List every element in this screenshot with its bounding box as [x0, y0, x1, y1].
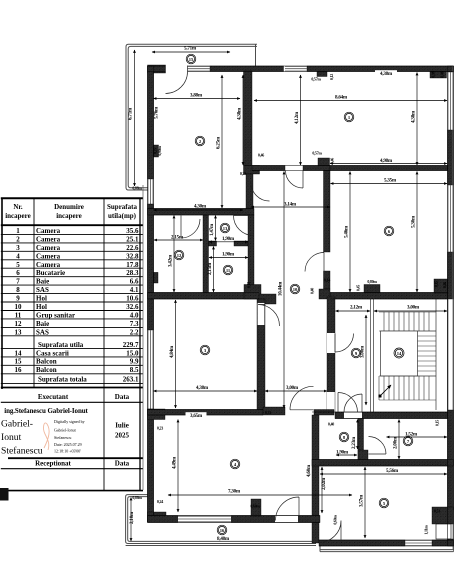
- svg-text:2,12m: 2,12m: [350, 306, 363, 311]
- door room9: [335, 334, 354, 353]
- niche bottom-right: [432, 507, 454, 524]
- dim 5.30m room6 right v: [416, 172, 418, 293]
- svg-text:2,23m: 2,23m: [352, 436, 357, 449]
- room5 bottom wall: [319, 540, 405, 546]
- svg-text:1,90m: 1,90m: [222, 253, 235, 258]
- svg-text:5,56m: 5,56m: [386, 469, 399, 474]
- svg-text:0,88m: 0,88m: [132, 186, 142, 191]
- wall V3 right of 13/11: [248, 215, 254, 294]
- svg-text:0,24: 0,24: [157, 499, 163, 504]
- digital signature name: [1, 419, 43, 457]
- svg-text:15.0: 15.0: [126, 349, 139, 357]
- svg-text:Balcon: Balcon: [36, 366, 57, 374]
- wall H3 between 13 and 11: [209, 241, 217, 246]
- svg-text:2,15m: 2,15m: [208, 262, 213, 275]
- svg-text:Gabriel-: Gabriel-: [1, 419, 33, 430]
- svg-text:6: 6: [16, 269, 20, 277]
- svg-text:1: 1: [16, 227, 20, 235]
- svg-text:0,57m: 0,57m: [312, 151, 322, 156]
- svg-text:25.1: 25.1: [126, 235, 139, 243]
- dim 2.15m room12: [154, 239, 203, 241]
- dim 4.12m v hall top: [300, 75, 302, 165]
- wall V6a room6 left: [324, 171, 331, 253]
- dim 6.25m room2 v: [221, 75, 223, 208]
- svg-text:9: 9: [16, 295, 20, 303]
- svg-text:2,10m: 2,10m: [130, 511, 135, 524]
- svg-text:0,23: 0,23: [157, 426, 163, 431]
- svg-text:0,46: 0,46: [440, 71, 445, 77]
- svg-text:0,40: 0,40: [310, 288, 315, 294]
- svg-text:Suprafata totala: Suprafata totala: [38, 376, 87, 384]
- stairs treads top flight: [379, 312, 436, 331]
- svg-text:5,35m: 5,35m: [384, 179, 397, 184]
- svg-text:0,15: 0,15: [435, 420, 440, 426]
- svg-text:Suprafata utila: Suprafata utila: [38, 341, 84, 349]
- dim 3.14m hall top: [251, 206, 330, 208]
- window left wall (room 3): [148, 330, 153, 409]
- door balcony16: [276, 497, 300, 521]
- door room4: [290, 386, 314, 410]
- wall H1 right part to right wall: [330, 166, 448, 171]
- svg-text:0,60m: 0,60m: [333, 514, 338, 524]
- svg-text:5,30m: 5,30m: [412, 215, 417, 228]
- svg-text:SAS: SAS: [36, 328, 49, 336]
- svg-text:4,60m: 4,60m: [307, 464, 312, 477]
- dim 3.00m room9 v: [365, 315, 367, 405]
- svg-text:3: 3: [16, 244, 20, 252]
- svg-text:0,46: 0,46: [330, 158, 335, 164]
- svg-text:8,48m: 8,48m: [217, 537, 230, 542]
- svg-text:incapere: incapere: [56, 212, 82, 220]
- wall V6b room8 right: [358, 419, 364, 464]
- svg-text:7.3: 7.3: [130, 320, 139, 328]
- svg-text:Casa scarii: Casa scarii: [36, 349, 69, 357]
- svg-text:263.1: 263.1: [123, 376, 139, 384]
- svg-text:4,38m: 4,38m: [196, 386, 209, 391]
- svg-text:32.6: 32.6: [126, 303, 139, 311]
- svg-text:Nr.: Nr.: [13, 203, 23, 211]
- svg-text:1,90m: 1,90m: [336, 451, 349, 456]
- dim 2.15m room11 v: [213, 247, 215, 293]
- svg-text:0,90m: 0,90m: [157, 145, 162, 155]
- wall H2 below room2: [148, 209, 255, 216]
- exterior left wall middle: [148, 204, 154, 330]
- dim 1.90m sas13: [209, 241, 248, 243]
- wall V5 room4 right: [312, 415, 319, 543]
- dim 3.42m room12 v: [173, 216, 175, 293]
- svg-text:Stefanescu: Stefanescu: [1, 446, 43, 457]
- dim 4.38m room3 bottom: [154, 390, 258, 392]
- svg-text:229.7: 229.7: [123, 341, 139, 349]
- svg-text:10: 10: [15, 303, 23, 311]
- svg-text:11: 11: [226, 268, 231, 273]
- exterior left wall lower + corner blocks: [148, 409, 154, 522]
- dim 1.90m room11: [209, 257, 248, 259]
- window left wall (room 2): [148, 179, 153, 204]
- svg-text:utila(mp): utila(mp): [108, 212, 137, 220]
- svg-text:2: 2: [16, 235, 20, 243]
- wall V2 left of rooms 13/11: [203, 215, 209, 294]
- door notch room3 top right: [258, 303, 265, 325]
- svg-text:32.8: 32.8: [126, 252, 139, 260]
- dim 2.00m room7 v: [398, 420, 400, 460]
- svg-text:3,65m: 3,65m: [190, 414, 203, 419]
- svg-text:6.6: 6.6: [130, 278, 139, 286]
- svg-text:1,90m: 1,90m: [222, 237, 235, 242]
- corner mark bottom-left: [0, 488, 9, 501]
- svg-text:6,71m: 6,71m: [129, 107, 134, 120]
- window in top wall (balcony door side): [188, 66, 211, 71]
- exterior left wall upper: [148, 66, 154, 179]
- svg-text:0,15: 0,15: [246, 282, 251, 288]
- svg-text:13: 13: [15, 328, 23, 336]
- svg-text:7,30m: 7,30m: [228, 490, 241, 495]
- svg-text:0,88m: 0,88m: [132, 495, 142, 500]
- wall H4 below 12/11: [148, 293, 260, 300]
- svg-text:14: 14: [397, 351, 402, 356]
- svg-text:2025: 2025: [115, 432, 130, 440]
- dim 3.00m hall bottom: [265, 390, 327, 392]
- dim 4.84m room3 v: [175, 300, 177, 408]
- dim 3.57m room5 v: [364, 467, 366, 538]
- svg-text:3,88m: 3,88m: [190, 94, 203, 99]
- svg-text:Suprafata: Suprafata: [107, 203, 137, 211]
- svg-text:12: 12: [177, 253, 182, 258]
- svg-text:Camera: Camera: [36, 252, 61, 260]
- window in top wall (room 1): [285, 66, 307, 71]
- door room8: [344, 394, 362, 412]
- window room4 bottom: [178, 516, 231, 523]
- svg-text:0,45: 0,45: [356, 285, 361, 291]
- svg-text:Hol: Hol: [36, 295, 47, 303]
- window room5 bottom: [405, 540, 432, 545]
- exterior top wall: [148, 65, 166, 73]
- svg-text:5,71m: 5,71m: [184, 47, 197, 52]
- dim 5.71m balcony: [152, 51, 230, 53]
- table borders: [0, 185, 143, 491]
- svg-text:10,44m: 10,44m: [279, 281, 284, 296]
- dim 5.56m room5: [320, 473, 447, 475]
- door room1: [286, 171, 304, 189]
- dim 8.64m room1: [254, 100, 447, 102]
- wall V1 room2/room1: [244, 71, 253, 166]
- svg-text:0,40: 0,40: [328, 422, 334, 427]
- svg-text:13: 13: [223, 226, 228, 231]
- dim 3.00m stairs: [374, 310, 447, 312]
- svg-text:2.2: 2.2: [130, 328, 139, 336]
- svg-text:Camera: Camera: [36, 244, 61, 252]
- svg-text:0,33: 0,33: [265, 410, 271, 415]
- left wall pillar bump: [154, 145, 159, 157]
- svg-text:9.9: 9.9: [130, 358, 139, 366]
- svg-text:0,46: 0,46: [442, 282, 447, 288]
- svg-text:0,15: 0,15: [434, 281, 439, 287]
- svg-text:4,98m: 4,98m: [380, 159, 393, 164]
- dim 4.98m room6 top: [330, 163, 447, 165]
- svg-text:3,00m: 3,00m: [361, 345, 366, 358]
- svg-text:16: 16: [15, 366, 23, 374]
- svg-text:Executant: Executant: [38, 393, 69, 401]
- pillar in wall H4c: [364, 285, 380, 293]
- stair landing: [381, 331, 418, 376]
- svg-text:Hol: Hol: [36, 303, 47, 311]
- svg-text:incapere: incapere: [5, 212, 31, 220]
- wall H1 room1/room6 left part: [252, 166, 285, 171]
- pillar above H1: [318, 158, 330, 166]
- svg-text:3,42m: 3,42m: [169, 254, 174, 267]
- door room7: [369, 437, 387, 455]
- svg-text:0,22: 0,22: [240, 171, 246, 176]
- dim 7.30m room4: [168, 494, 352, 496]
- svg-text:4,12m: 4,12m: [295, 111, 300, 124]
- svg-text:12:18:10 +03'00': 12:18:10 +03'00': [54, 449, 81, 454]
- svg-text:1,11m: 1,11m: [424, 525, 429, 535]
- svg-text:0,46: 0,46: [258, 153, 264, 158]
- svg-text:4.1: 4.1: [130, 286, 139, 294]
- svg-text:Baie: Baie: [36, 320, 49, 328]
- dim 4.38m v at V1: [242, 75, 244, 165]
- dim 4.30m room2 bottom: [154, 209, 244, 211]
- balcony door gap room4 bottom: [275, 516, 298, 522]
- door room3: [258, 305, 280, 327]
- room4 bottom wall: [148, 516, 321, 523]
- svg-text:Receptionat: Receptionat: [35, 460, 71, 468]
- svg-text:28.3: 28.3: [126, 269, 139, 277]
- svg-text:3,57m: 3,57m: [360, 494, 365, 507]
- table rows: [15, 227, 140, 384]
- svg-text:Date: 2025.07.29: Date: 2025.07.29: [54, 442, 82, 447]
- svg-text:4,84m: 4,84m: [170, 345, 175, 358]
- svg-text:10: 10: [293, 287, 298, 292]
- dim 5.46m room6 v: [349, 172, 351, 293]
- svg-text:15: 15: [15, 358, 23, 366]
- svg-text:1,52m: 1,52m: [405, 433, 418, 438]
- svg-text:Grup sanitar: Grup sanitar: [36, 312, 75, 320]
- door room12: [181, 216, 200, 239]
- svg-text:0,51: 0,51: [434, 509, 440, 514]
- svg-text:4,38m: 4,38m: [380, 72, 393, 77]
- svg-text:16: 16: [220, 528, 225, 533]
- dim 4.38m v room1 right: [416, 73, 418, 166]
- svg-text:Ionut: Ionut: [1, 432, 22, 443]
- svg-text:0,57m: 0,57m: [311, 77, 321, 82]
- svg-text:0,60m: 0,60m: [250, 504, 260, 509]
- svg-text:SAS: SAS: [36, 286, 49, 294]
- wall face lines: [148, 66, 454, 72]
- svg-text:ing.Stefanescu Gabriel-Ionut: ing.Stefanescu Gabriel-Ionut: [4, 407, 88, 415]
- svg-text:Stefanescu: Stefanescu: [54, 435, 71, 440]
- svg-text:5,76m: 5,76m: [155, 106, 160, 119]
- svg-text:3,00m: 3,00m: [407, 306, 420, 311]
- svg-text:8.5: 8.5: [130, 366, 139, 374]
- wall V8 hall/room9: [327, 297, 335, 412]
- svg-text:4,30m: 4,30m: [194, 205, 207, 210]
- stairs treads right flight: [418, 331, 437, 376]
- digital signature details: [54, 419, 85, 454]
- wall H7 top of rooms 8/7: [335, 412, 448, 419]
- wall V4 room3 right: [257, 299, 265, 410]
- svg-text:8,64m: 8,64m: [335, 96, 348, 101]
- svg-text:5,46m: 5,46m: [345, 225, 350, 238]
- svg-text:4,49m: 4,49m: [173, 456, 178, 469]
- svg-text:0,80m: 0,80m: [367, 279, 377, 284]
- svg-text:22.6: 22.6: [126, 244, 139, 252]
- dim 3.88m room2: [154, 98, 241, 100]
- svg-text:35.6: 35.6: [126, 227, 139, 235]
- pillar top-right: [430, 72, 447, 79]
- room circles: [174, 54, 413, 535]
- svg-text:Camera: Camera: [36, 227, 61, 235]
- door terrace: [319, 521, 341, 543]
- stairs up arrow: [380, 385, 391, 396]
- svg-text:2,00m: 2,00m: [394, 436, 399, 449]
- pillar below top wall in room 1: [317, 72, 327, 77]
- wall H5 bottom of room3/hall: [148, 410, 264, 416]
- svg-text:2,02m: 2,02m: [322, 477, 327, 490]
- wall H6 top of room5: [312, 460, 454, 467]
- door hall-south: [338, 393, 358, 413]
- door room6: [305, 253, 324, 272]
- svg-text:12: 12: [15, 320, 23, 328]
- svg-text:3,00m: 3,00m: [286, 386, 299, 391]
- svg-text:5: 5: [16, 261, 20, 269]
- svg-text:Data: Data: [115, 393, 130, 401]
- svg-text:Camera: Camera: [36, 235, 61, 243]
- svg-text:Iulie: Iulie: [115, 422, 129, 430]
- svg-text:14: 14: [15, 349, 23, 357]
- svg-text:4,38m: 4,38m: [238, 107, 243, 120]
- dim 2.12m room9: [336, 310, 371, 312]
- dim 6.71m balcony left: [134, 50, 136, 186]
- svg-text:7: 7: [16, 278, 20, 286]
- dim 4.49m room4 v: [177, 420, 179, 513]
- svg-text:11: 11: [15, 312, 22, 320]
- stairs treads bottom flight: [379, 376, 436, 400]
- dim 1.52m room7: [387, 436, 448, 438]
- svg-text:0,12: 0,12: [329, 74, 334, 80]
- svg-text:Data: Data: [115, 460, 130, 468]
- svg-text:Balcon: Balcon: [36, 358, 57, 366]
- svg-text:Denumire: Denumire: [54, 203, 84, 211]
- dim 10.44m hall v: [283, 172, 285, 409]
- dim 2.23m room8 v: [357, 420, 359, 450]
- stair side walls thin lines: [371, 297, 448, 412]
- svg-text:Gabriel-Ionut: Gabriel-Ionut: [54, 428, 77, 433]
- svg-text:Baie: Baie: [36, 278, 49, 286]
- door balcony top-left: [166, 66, 188, 94]
- left wall bump room12: [154, 272, 159, 283]
- exterior right wall segments: [448, 66, 454, 72]
- dim 1.47m sas13 v: [215, 216, 217, 241]
- svg-text:3,14m: 3,14m: [284, 203, 297, 208]
- svg-text:Camera: Camera: [36, 261, 61, 269]
- svg-text:10.6: 10.6: [126, 295, 139, 303]
- svg-text:4,38m: 4,38m: [412, 110, 417, 123]
- door room2 from sas13: [251, 183, 270, 202]
- wall H4c below room6: [330, 293, 448, 300]
- svg-text:Bucatarie: Bucatarie: [36, 269, 65, 277]
- terrace edge bottom-right: [320, 544, 454, 552]
- signature flourish: [44, 423, 50, 450]
- svg-text:0,35: 0,35: [153, 148, 158, 154]
- dim 2.10m balcony16 v: [130, 498, 132, 542]
- svg-text:6,25m: 6,25m: [217, 136, 222, 149]
- svg-text:15: 15: [189, 57, 194, 62]
- svg-text:Digitally signed by: Digitally signed by: [54, 419, 85, 424]
- balcony 15 outline (L-shaped, top-left): [126, 44, 257, 190]
- balcony 16 outline (bottom): [126, 495, 316, 546]
- svg-text:1,47m: 1,47m: [210, 223, 215, 236]
- svg-text:4: 4: [16, 252, 20, 260]
- door sas13: [234, 216, 254, 236]
- dim 1.90m room8: [336, 454, 357, 456]
- dim 2.02m v: [321, 467, 323, 513]
- svg-text:0,14: 0,14: [324, 278, 330, 283]
- dim texts vertical: [129, 71, 448, 534]
- svg-text:2,15m: 2,15m: [171, 236, 184, 241]
- svg-text:17.8: 17.8: [126, 261, 139, 269]
- svg-text:8: 8: [16, 286, 20, 294]
- svg-text:4.0: 4.0: [130, 312, 139, 320]
- svg-text:0,38: 0,38: [431, 71, 436, 77]
- dim 5.35m room6: [331, 183, 448, 185]
